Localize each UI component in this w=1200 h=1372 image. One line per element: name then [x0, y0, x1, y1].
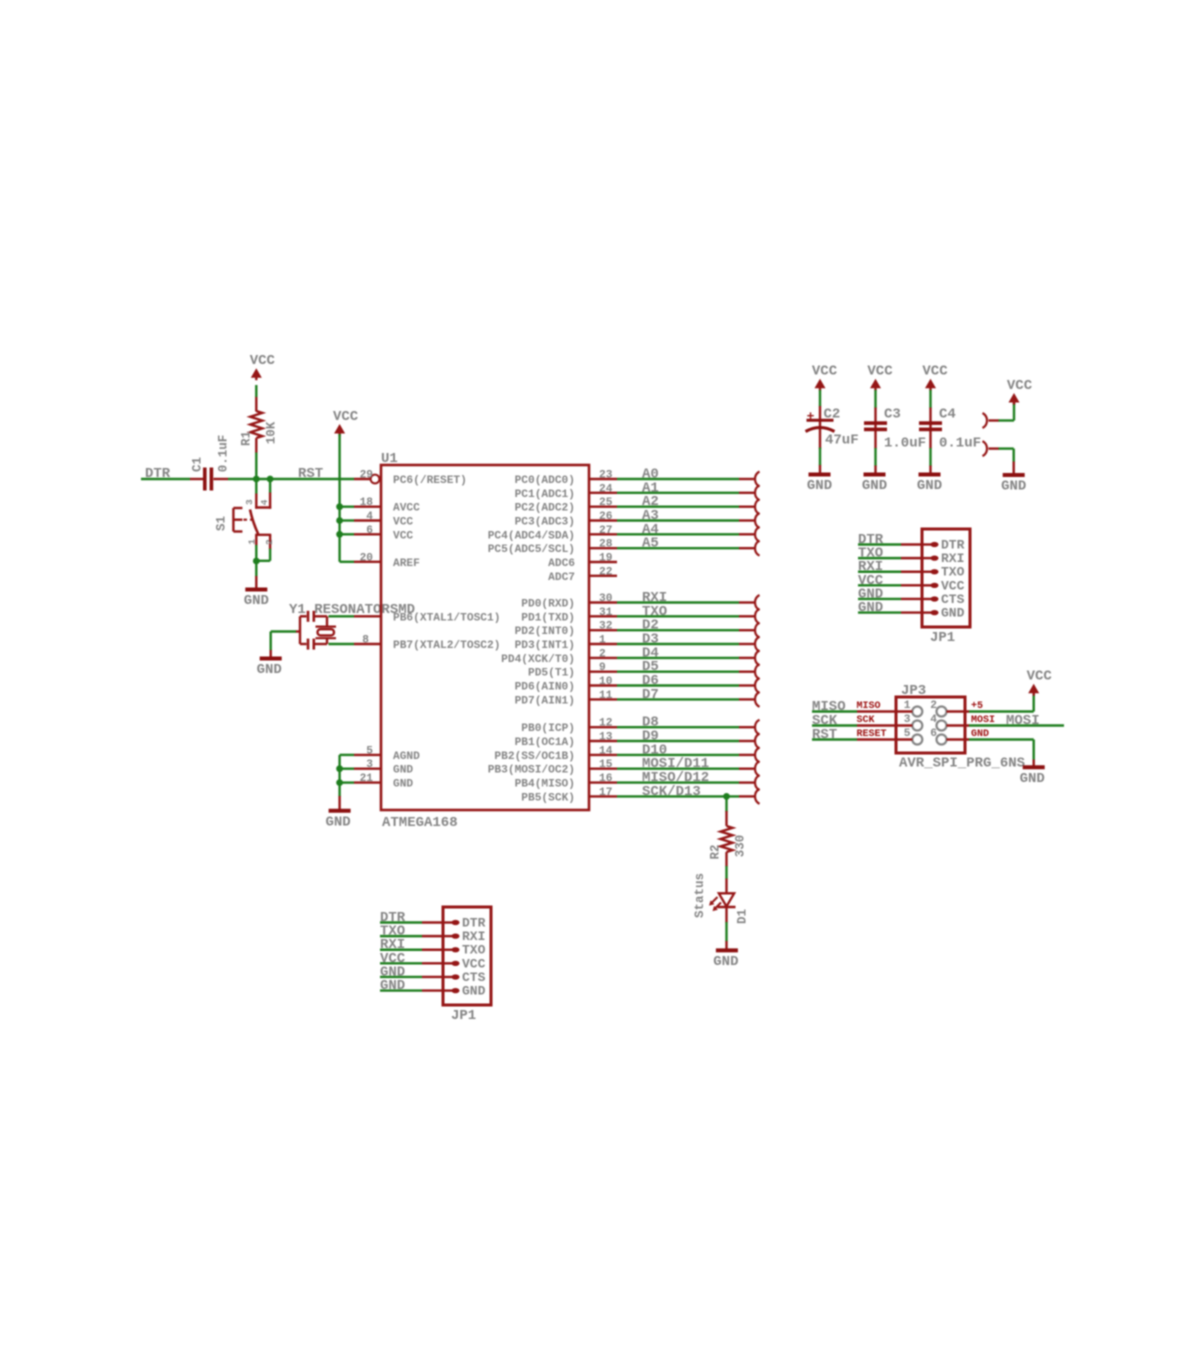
svg-text:VCC: VCC: [393, 517, 413, 529]
svg-text:GND: GND: [393, 779, 413, 791]
connector JP1 pin 6 GND: [443, 989, 453, 991]
connector JP3 pin circles: [912, 707, 922, 717]
U1 pin 24 PC1(ADC1): [589, 492, 617, 494]
svg-text:D1: D1: [736, 909, 750, 924]
wire end arrow D9: [755, 734, 760, 749]
svg-text:4: 4: [366, 511, 373, 523]
wire MISO to JP3 pin1: [812, 710, 857, 712]
svg-text:SCK/D13: SCK/D13: [642, 784, 701, 800]
ground rail for U1 AGND/GND pins: [340, 754, 354, 756]
U1 pin 27 PC4(ADC4/SDA): [589, 533, 617, 535]
wire end arrow A1: [755, 485, 760, 500]
wire net D8: [617, 726, 739, 728]
wire end arrow A2: [755, 499, 760, 514]
svg-text:0.1uF: 0.1uF: [217, 435, 231, 473]
svg-text:VCC: VCC: [1027, 669, 1053, 685]
svg-text:PD2(INT0): PD2(INT0): [515, 626, 575, 638]
wire end arrow TXO: [755, 609, 760, 624]
svg-text:U1: U1: [381, 451, 398, 467]
svg-text:12: 12: [599, 718, 613, 730]
switch S1 (reset pushbutton): [255, 479, 257, 494]
svg-text:D7: D7: [642, 687, 659, 703]
svg-text:ADC7: ADC7: [548, 572, 575, 584]
wire net A4: [617, 533, 739, 535]
svg-text:11: 11: [599, 690, 613, 702]
ground below D1: [716, 948, 738, 952]
svg-text:PD6(AIN0): PD6(AIN0): [515, 682, 575, 694]
svg-text:19: 19: [599, 553, 613, 565]
wire RST net from C1 to U1 pin 29: [228, 478, 354, 480]
svg-text:R1: R1: [240, 431, 254, 446]
wire GND to JP1: [380, 976, 422, 978]
wire DTR to C1: [141, 478, 190, 480]
U1 pin 9 PD5(T1): [589, 671, 617, 673]
svg-text:2: 2: [599, 648, 606, 660]
capacitor C2 47uF polarized: [819, 390, 821, 407]
U1 pin 5 AGND: [354, 754, 381, 756]
svg-text:10K: 10K: [265, 421, 279, 444]
svg-text:S1: S1: [215, 516, 229, 531]
svg-text:2: 2: [264, 539, 275, 545]
U1 pin 20 AREF: [354, 561, 381, 563]
U1 pin 6 VCC: [354, 533, 381, 535]
svg-text:3: 3: [366, 759, 373, 771]
junction on RST at R1: [253, 476, 260, 483]
wire net D2: [617, 629, 739, 631]
svg-text:PC6(/RESET): PC6(/RESET): [393, 475, 467, 487]
svg-text:14: 14: [599, 745, 613, 757]
capacitor C4 0.1uF: [929, 390, 931, 408]
svg-text:GND: GND: [244, 593, 269, 609]
wire GND to JP1: [858, 598, 901, 600]
wire RXI to JP1: [380, 949, 422, 951]
svg-text:20: 20: [360, 552, 374, 564]
resistor R2 330: [725, 796, 727, 812]
svg-text:15: 15: [599, 759, 613, 771]
wire to VCC pin 6: [340, 533, 354, 535]
U1 pin 25 PC2(ADC2): [589, 506, 617, 508]
ground below C3: [864, 473, 886, 477]
svg-text:GND: GND: [1001, 479, 1026, 495]
ground below stub connector: [1003, 473, 1025, 477]
wire end arrow A4: [755, 527, 760, 542]
wire DTR to JP1: [858, 543, 901, 545]
U1 pin 16 PB4(MISO): [589, 781, 617, 783]
svg-text:1: 1: [247, 539, 258, 545]
svg-text:10: 10: [599, 676, 613, 688]
junction GND pin21: [336, 779, 343, 786]
junction VCC pin4: [336, 517, 343, 524]
op-amp U1 ATMEGA168 (IC body): [381, 465, 589, 810]
svg-text:3: 3: [904, 714, 911, 726]
wire D1 to ground: [725, 907, 727, 923]
wire end arrow D3: [755, 637, 760, 652]
U1 pin 28 PC5(ADC5/SCL): [589, 547, 617, 549]
wire GND to JP1: [858, 611, 901, 613]
wire JP3 pin4 MOSI out: [947, 724, 970, 726]
svg-text:VCC: VCC: [1007, 378, 1033, 394]
svg-text:8: 8: [362, 635, 369, 647]
wire resonator pin1 to XTAL1: [329, 615, 355, 617]
svg-text:ATMEGA168: ATMEGA168: [382, 815, 458, 831]
junction AVCC: [336, 503, 343, 510]
svg-text:VCC: VCC: [812, 364, 838, 380]
svg-text:PD1(TXD): PD1(TXD): [521, 612, 575, 624]
wire end arrow D2: [755, 623, 760, 638]
junction GND pin3: [336, 765, 343, 772]
svg-text:+: +: [807, 409, 815, 424]
wire resonator common pin to ground: [296, 630, 301, 632]
connector JP1 pin 1 DTR: [443, 921, 453, 923]
svg-text:VCC: VCC: [922, 364, 948, 380]
U1 pin 1 PD3(INT1): [589, 643, 617, 645]
U1 pin 13 PB1(OC1A): [589, 740, 617, 742]
svg-text:28: 28: [599, 539, 613, 551]
svg-text:30: 30: [599, 593, 613, 605]
wire S1 to ground: [255, 561, 257, 577]
U1 pin 23 PC0(ADC0): [589, 478, 617, 480]
junction SCK/D13 to R2: [723, 793, 730, 800]
wire VCC to JP1: [380, 962, 422, 964]
svg-text:0.1uF: 0.1uF: [939, 436, 981, 452]
wire to AVCC pin: [340, 506, 354, 508]
ground below C2: [809, 473, 831, 477]
wire net A5: [617, 547, 739, 549]
svg-text:26: 26: [599, 511, 613, 523]
svg-text:AREF: AREF: [393, 558, 420, 570]
junction VCC pin6: [336, 531, 343, 538]
LED D1 light arrows: [711, 897, 718, 904]
wire net TXO: [617, 615, 739, 617]
svg-text:GND: GND: [462, 984, 486, 999]
wire R2 to D1: [725, 866, 727, 879]
svg-text:31: 31: [599, 607, 613, 619]
wire resonator pin3 to XTAL2: [329, 643, 355, 645]
svg-text:GND: GND: [257, 662, 282, 678]
svg-text:C4: C4: [939, 407, 956, 423]
wire end arrow A3: [755, 513, 760, 528]
svg-text:VCC: VCC: [250, 353, 276, 369]
connector JP1 body: [922, 529, 970, 627]
ground below Y1: [260, 657, 282, 661]
svg-text:A5: A5: [642, 536, 659, 552]
svg-text:PB5(SCK): PB5(SCK): [521, 792, 575, 804]
svg-text:22: 22: [599, 566, 613, 578]
wire net RXI: [617, 601, 739, 603]
U1 pin 18 AVCC: [354, 506, 381, 508]
U1 pin 32 PD2(INT0): [589, 629, 617, 631]
ground below JP3: [1023, 765, 1045, 769]
U1 pin 11 PD7(AIN1): [589, 698, 617, 700]
wire end arrow A0: [755, 472, 760, 487]
svg-text:GND: GND: [807, 478, 832, 494]
svg-text:PC5(ADC5/SCL): PC5(ADC5/SCL): [488, 544, 575, 556]
svg-text:AVR_SPI_PRG_6NS: AVR_SPI_PRG_6NS: [899, 756, 1025, 772]
svg-text:VCC: VCC: [393, 530, 413, 542]
wire net A3: [617, 519, 739, 521]
junction below S1: [253, 558, 260, 565]
ground below S1: [245, 588, 267, 592]
svg-text:GND: GND: [393, 765, 413, 777]
svg-text:VCC: VCC: [333, 409, 359, 425]
svg-text:1.0uF: 1.0uF: [884, 436, 926, 452]
svg-text:17: 17: [599, 787, 612, 799]
svg-text:PB7(XTAL2/TOSC2): PB7(XTAL2/TOSC2): [393, 640, 500, 652]
wire net A0: [617, 478, 739, 480]
wire end arrow SCK/D13: [755, 789, 760, 804]
LED D1 Status: [725, 879, 727, 894]
capacitor C1 0.1uF: [190, 478, 203, 480]
wire DTR to JP1: [380, 921, 422, 923]
svg-text:PB1(OC1A): PB1(OC1A): [515, 737, 575, 749]
U1 pin 3 GND: [354, 768, 381, 770]
U1 pin 26 PC3(ADC3): [589, 519, 617, 521]
wire end arrow A5: [755, 541, 760, 556]
switch S1 actuator bracket: [232, 508, 234, 532]
svg-text:GND: GND: [1020, 771, 1045, 787]
svg-text:PB4(MISO): PB4(MISO): [515, 779, 575, 791]
connector JP3 AVR_SPI_PRG_6NS body: [896, 697, 965, 753]
wire end arrow D5: [755, 664, 760, 679]
U1 pin 2 PD4(XCK/T0): [589, 657, 617, 659]
U1 pin 15 PB3(MOSI/OC2): [589, 768, 617, 770]
svg-text:GND: GND: [325, 814, 350, 830]
svg-text:PB3(MOSI/OC2): PB3(MOSI/OC2): [488, 765, 575, 777]
wire to VCC pin 4: [340, 519, 354, 521]
connector JP1 pin 4 VCC: [922, 584, 932, 586]
svg-text:16: 16: [599, 773, 613, 785]
svg-text:PC0(ADC0): PC0(ADC0): [515, 475, 575, 487]
U1 pin 31 PD1(TXD): [589, 615, 617, 617]
wire net MOSI/D11: [617, 768, 739, 770]
svg-text:PD3(INT1): PD3(INT1): [515, 640, 575, 652]
wire end fork to VCC: [983, 413, 988, 428]
wire TXO to JP1: [380, 935, 422, 937]
svg-text:9: 9: [599, 662, 606, 674]
U1 pin 19 ADC6: [589, 561, 617, 563]
svg-text:27: 27: [599, 525, 612, 537]
svg-text:PD4(XCK/T0): PD4(XCK/T0): [501, 654, 575, 666]
wire net D5: [617, 671, 739, 673]
wire GND to JP1: [380, 989, 422, 991]
U1 pin 7 PB6(XTAL1/TOSC1): [354, 615, 381, 617]
wire end arrow D8: [755, 720, 760, 735]
connector JP1 pin 2 RXI: [922, 557, 932, 559]
wire TXO to JP1: [858, 557, 901, 559]
svg-text:AGND: AGND: [393, 751, 420, 763]
svg-text:PD5(T1): PD5(T1): [528, 668, 575, 680]
wire VCC rail down to AVCC/VCC/VCC/AREF: [338, 434, 340, 562]
svg-text:1: 1: [599, 635, 606, 647]
wire end arrow MOSI/D11: [755, 761, 760, 776]
svg-text:4: 4: [930, 714, 937, 726]
wire to AREF pin 20: [340, 561, 354, 563]
wire SCK to JP3 pin3: [812, 724, 857, 726]
svg-text:3: 3: [244, 499, 255, 505]
connector JP1 pin 5 CTS: [443, 976, 453, 978]
wire end arrow D4: [755, 650, 760, 665]
connector JP1 pin 1 DTR: [922, 543, 932, 545]
svg-text:JP3: JP3: [901, 683, 926, 699]
wire net D4: [617, 657, 739, 659]
wire net D9: [617, 740, 739, 742]
svg-text:MOSI: MOSI: [1006, 713, 1040, 729]
svg-text:GND: GND: [941, 606, 965, 621]
U1 pin 30 PD0(RXD): [589, 601, 617, 603]
svg-text:32: 32: [599, 621, 613, 633]
U1 pin 10 PD6(AIN0): [589, 684, 617, 686]
U1 pin 22 ADC7: [589, 575, 617, 577]
wire end arrow RXI: [755, 595, 760, 610]
wire RST to JP3 pin5: [812, 738, 857, 740]
U1 pin 14 PB2(SS/OC1B): [589, 754, 617, 756]
svg-text:VCC: VCC: [867, 364, 893, 380]
U1 pin 29 PC6(/RESET) with inversion bubble: [354, 478, 371, 480]
svg-text:PD0(RXD): PD0(RXD): [521, 599, 575, 611]
svg-text:5: 5: [904, 728, 911, 740]
svg-text:PC1(ADC1): PC1(ADC1): [515, 489, 575, 501]
wire net A2: [617, 506, 739, 508]
svg-text:C3: C3: [884, 407, 901, 423]
svg-text:21: 21: [360, 773, 374, 785]
svg-text:C1: C1: [191, 457, 205, 472]
svg-text:JP1: JP1: [451, 1008, 476, 1024]
svg-text:29: 29: [360, 470, 374, 482]
svg-text:PD7(AIN1): PD7(AIN1): [515, 695, 575, 707]
svg-text:GND: GND: [917, 478, 942, 494]
wire end arrow MISO/D12: [755, 775, 760, 790]
svg-text:JP1: JP1: [930, 630, 955, 646]
junction on RST at S1: [267, 476, 274, 483]
connector JP1 pin 5 CTS: [922, 598, 932, 600]
svg-text:Status: Status: [693, 873, 707, 918]
capacitor C3 1.0uF: [874, 390, 876, 408]
svg-text:PC3(ADC3): PC3(ADC3): [515, 517, 575, 529]
wire end fork to GND (right): [983, 441, 988, 456]
svg-text:330: 330: [734, 835, 748, 858]
svg-text:PB0(ICP): PB0(ICP): [521, 723, 575, 735]
wire net D10: [617, 754, 739, 756]
wire net D6: [617, 684, 739, 686]
wire net D7: [617, 698, 739, 700]
svg-text:PC2(ADC2): PC2(ADC2): [515, 503, 575, 515]
svg-text:6: 6: [366, 525, 373, 537]
svg-text:RST: RST: [298, 466, 323, 482]
U1 pin 8 PB7(XTAL2/TOSC2): [354, 643, 381, 645]
svg-text:13: 13: [599, 732, 613, 744]
connector JP1 pin 2 RXI: [443, 935, 453, 937]
wire JP3 pin6 to GND: [947, 738, 970, 740]
connector JP1 pin 3 TXO: [922, 571, 932, 573]
svg-text:1: 1: [904, 700, 911, 712]
wire VCC to JP1: [858, 584, 901, 586]
svg-text:6: 6: [930, 728, 937, 740]
wire JP3 pin2 (+5) to VCC: [947, 710, 970, 712]
wire RXI to JP1: [858, 571, 901, 573]
svg-text:C2: C2: [824, 407, 841, 423]
ground below C4: [919, 473, 941, 477]
U1 pin 4 VCC: [354, 519, 381, 521]
U1 pin 21 GND: [354, 781, 381, 783]
resistor R1 10K pull-up: [255, 452, 257, 479]
svg-text:AVCC: AVCC: [393, 503, 420, 515]
connector JP1 body: [443, 907, 491, 1005]
ground below U1 supply rail: [329, 809, 351, 813]
svg-text:PC4(ADC4/SDA): PC4(ADC4/SDA): [488, 530, 575, 542]
svg-text:2: 2: [930, 700, 937, 712]
svg-text:ADC6: ADC6: [548, 558, 575, 570]
wire end arrow D10: [755, 747, 760, 762]
wire end arrow D7: [755, 692, 760, 707]
wire end arrow D6: [755, 678, 760, 693]
wire net A1: [617, 492, 739, 494]
connector JP1 pin 3 TXO: [443, 949, 453, 951]
svg-text:GND: GND: [862, 478, 887, 494]
connector JP1 pin 6 GND: [922, 611, 932, 613]
svg-text:PB6(XTAL1/TOSC1): PB6(XTAL1/TOSC1): [393, 612, 500, 624]
U1 pin 17 PB5(SCK): [589, 795, 617, 797]
svg-text:47uF: 47uF: [825, 433, 859, 449]
wire net MISO/D12: [617, 781, 739, 783]
wire net SCK/D13: [617, 795, 739, 797]
svg-text:PB2(SS/OC1B): PB2(SS/OC1B): [494, 751, 575, 763]
svg-text:4: 4: [259, 499, 270, 505]
svg-text:R2: R2: [709, 844, 723, 859]
svg-text:24: 24: [599, 483, 613, 495]
connector JP1 pin 4 VCC: [443, 962, 453, 964]
svg-text:25: 25: [599, 497, 613, 509]
svg-text:GND: GND: [713, 954, 738, 970]
svg-text:18: 18: [360, 497, 374, 509]
svg-text:5: 5: [366, 745, 373, 757]
U1 pin 12 PB0(ICP): [589, 726, 617, 728]
svg-text:23: 23: [599, 470, 613, 482]
wire net D3: [617, 643, 739, 645]
